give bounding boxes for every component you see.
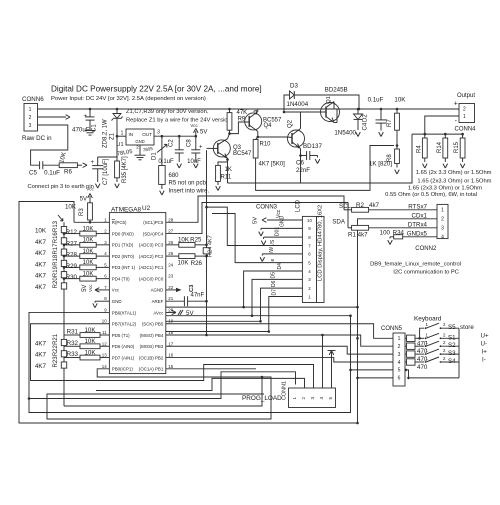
svg-text:0.1uF: 0.1uF xyxy=(158,159,174,165)
capacitor C2 xyxy=(178,135,181,138)
wire lcd D7 xyxy=(166,297,303,332)
wire SDA xyxy=(166,203,348,234)
svg-text:4K7: 4K7 xyxy=(35,273,47,280)
wire prog pin2 loop xyxy=(96,378,305,390)
svg-text:PROG_LOAD: PROG_LOAD xyxy=(242,395,282,402)
resistor R18 4K7 xyxy=(61,260,66,266)
svg-text:28: 28 xyxy=(168,217,173,222)
svg-text:C8: C8 xyxy=(187,139,193,147)
svg-text:15: 15 xyxy=(168,364,173,369)
resistor R5 680 xyxy=(159,166,166,185)
resistor R32 10K xyxy=(64,345,80,347)
svg-text:4K7: 4K7 xyxy=(35,261,47,268)
wire CONN1 pin4 xyxy=(322,335,324,388)
wire lcd RW pin6 xyxy=(262,253,302,255)
svg-text:R4: R4 xyxy=(416,145,422,153)
svg-text:store: store xyxy=(460,324,474,331)
svg-text:PD6 (AIN0): PD6 (AIN0) xyxy=(112,344,135,349)
svg-text:Vcc: Vcc xyxy=(112,288,120,293)
svg-text:R13: R13 xyxy=(53,220,59,232)
svg-text:OUT: OUT xyxy=(142,132,152,137)
svg-text:I2C communication to PC: I2C communication to PC xyxy=(393,269,459,275)
svg-text:1K [820]: 1K [820] xyxy=(369,161,392,168)
svg-text:R25: R25 xyxy=(190,237,202,244)
switch S4 xyxy=(425,361,427,363)
wire r9 to q4 base xyxy=(230,122,249,134)
svg-text:10K: 10K xyxy=(394,97,406,104)
svg-text:C7 [10uF]: C7 [10uF] xyxy=(103,158,109,185)
svg-text:4k7: 4k7 xyxy=(369,202,380,209)
svg-text:2: 2 xyxy=(301,397,306,400)
svg-text:1N5400: 1N5400 xyxy=(334,130,356,137)
svg-text:R23: R23 xyxy=(53,356,59,368)
svg-text:D5: D5 xyxy=(271,272,277,279)
svg-text:CDx1: CDx1 xyxy=(412,212,428,219)
wire conn6 pin3 route xyxy=(31,125,68,165)
svg-text:Vcc: Vcc xyxy=(86,187,94,192)
wire lcd RS pin7 xyxy=(207,207,303,245)
resistor R9 47K xyxy=(228,108,231,111)
svg-text:4K7: 4K7 xyxy=(35,239,47,246)
svg-text:U2: U2 xyxy=(142,205,151,212)
svg-text:S5: S5 xyxy=(448,324,456,331)
resistor R28 10K xyxy=(64,255,80,257)
svg-text:Replace Z1 by a wire for the 2: Replace Z1 by a wire for the 24V version… xyxy=(126,118,233,124)
svg-text:4K7: 4K7 xyxy=(35,250,47,257)
svg-text:27: 27 xyxy=(168,229,173,234)
svg-text:Q2: Q2 xyxy=(288,119,294,128)
svg-text:U1: U1 xyxy=(116,142,123,148)
transistor Q4 BC557 xyxy=(245,113,262,130)
svg-text:0.1uF: 0.1uF xyxy=(44,170,60,177)
diode D3 1N4004 xyxy=(283,111,286,114)
svg-text:3: 3 xyxy=(398,352,401,358)
svg-text:10K: 10K xyxy=(84,338,96,345)
svg-text:R7: R7 xyxy=(387,119,393,127)
resistor R26 10K xyxy=(166,255,179,257)
svg-text:Digital DC Powersupply 22V 2.5: Digital DC Powersupply 22V 2.5A [or 30V … xyxy=(51,85,262,94)
svg-text:R12: R12 xyxy=(66,229,78,236)
svg-text:4: 4 xyxy=(398,360,401,366)
svg-text:R26: R26 xyxy=(191,260,203,267)
switch S5 store xyxy=(420,328,424,338)
svg-text:2: 2 xyxy=(29,115,32,121)
svg-text:(ADC0) PC0: (ADC0) PC0 xyxy=(139,276,164,281)
wire pin1 row xyxy=(74,221,109,223)
svg-text:CONN2: CONN2 xyxy=(415,246,437,252)
wire pin10 loop xyxy=(31,324,314,388)
svg-text:S1: S1 xyxy=(448,334,456,341)
svg-text:1: 1 xyxy=(398,336,401,342)
svg-text:R35 [4K7]: R35 [4K7] xyxy=(122,156,128,183)
svg-text:5: 5 xyxy=(328,397,333,400)
wire conn1 pin1 loop xyxy=(29,372,296,399)
svg-text:3: 3 xyxy=(310,397,315,400)
wire MOSI row xyxy=(166,346,393,354)
svg-text:470: 470 xyxy=(417,364,428,371)
svg-text:1.65 (2x3.3 Ohm) or 1.5Ohm: 1.65 (2x3.3 Ohm) or 1.5Ohm xyxy=(408,186,482,192)
svg-text:1K: 1K xyxy=(225,167,232,173)
svg-text:12: 12 xyxy=(102,341,107,346)
svg-text:PD1 (TXD): PD1 (TXD) xyxy=(112,243,134,248)
svg-text:2: 2 xyxy=(463,107,466,113)
wire ladder bottom loop xyxy=(64,377,262,406)
svg-text:4K7: 4K7 xyxy=(35,284,47,291)
svg-text:4K7 [5K0]: 4K7 [5K0] xyxy=(259,162,286,168)
svg-text:D7: D7 xyxy=(272,289,278,296)
resistor R14 xyxy=(444,133,447,136)
svg-text:10K: 10K xyxy=(83,238,94,244)
svg-text:24: 24 xyxy=(168,262,173,267)
resistor R16 4K7 xyxy=(61,238,66,244)
resistor R34 100 xyxy=(403,236,437,238)
svg-text:1N4004: 1N4004 xyxy=(287,101,309,108)
svg-text:R31: R31 xyxy=(67,329,79,336)
wire conn5 pin6 left xyxy=(358,377,394,379)
wire q2 emitter down to sense xyxy=(300,156,302,184)
wire input rail xyxy=(38,108,460,110)
svg-text:U+: U+ xyxy=(481,332,489,339)
AGND pin22 xyxy=(166,289,176,291)
svg-text:Q1: Q1 xyxy=(326,96,332,104)
svg-text:16: 16 xyxy=(168,353,173,358)
svg-text:1: 1 xyxy=(292,397,297,400)
svg-text:(SCL)PC5: (SCL)PC5 xyxy=(143,220,164,225)
svg-text:BD137: BD137 xyxy=(303,143,322,150)
svg-text:1: 1 xyxy=(29,107,32,113)
resistor R12 10K xyxy=(64,233,80,235)
ground under C1 xyxy=(85,130,96,132)
svg-text:R6: R6 xyxy=(64,169,72,176)
wire z1 to U1 in xyxy=(117,135,126,137)
resistor R19 4K7 xyxy=(61,272,66,278)
capacitor C6 22nF xyxy=(301,155,307,157)
junction pin1 row xyxy=(356,337,359,340)
svg-text:22nF: 22nF xyxy=(296,167,310,174)
capacitor C1 470uF xyxy=(89,108,92,111)
svg-text:Z1: Z1 xyxy=(110,132,116,140)
capacitor C3 47nF xyxy=(166,300,185,302)
svg-text:CONN5: CONN5 xyxy=(381,326,403,332)
svg-text:0.1uF: 0.1uF xyxy=(368,97,384,104)
svg-text:GND: GND xyxy=(135,139,144,144)
wire line A voltage sense xyxy=(228,134,413,183)
svg-text:R24 4K7: R24 4K7 xyxy=(208,235,214,257)
wire CD xyxy=(358,219,438,423)
svg-text:D4: D4 xyxy=(277,263,283,270)
svg-text:6: 6 xyxy=(398,376,401,382)
svg-text:U-: U- xyxy=(481,341,488,348)
svg-text:R14: R14 xyxy=(437,141,443,153)
svg-text:R17: R17 xyxy=(53,243,59,255)
capacitor C5 xyxy=(39,161,41,169)
svg-text:25: 25 xyxy=(168,251,173,256)
svg-text:RTSx7: RTSx7 xyxy=(408,203,427,210)
svg-text:5V: 5V xyxy=(80,196,87,202)
svg-text:R28: R28 xyxy=(66,252,78,259)
svg-text:D6: D6 xyxy=(271,280,277,287)
wire D5 to bus right xyxy=(252,315,351,317)
zener Z1 xyxy=(116,108,119,111)
svg-text:R19: R19 xyxy=(53,265,59,277)
svg-text:GNDx5: GNDx5 xyxy=(407,230,428,237)
wire feedback down to MISO row xyxy=(206,256,208,335)
svg-text:R5 not on pcb: R5 not on pcb xyxy=(169,181,207,187)
svg-text:(MISO) PB4: (MISO) PB4 xyxy=(140,333,164,338)
svg-text:BD245B: BD245B xyxy=(325,87,348,94)
keyboard resistors 470 xyxy=(405,337,407,339)
svg-text:CONN3: CONN3 xyxy=(256,205,278,211)
svg-text:26: 26 xyxy=(168,240,173,245)
svg-text:R16: R16 xyxy=(53,232,59,244)
svg-text:R22: R22 xyxy=(53,345,59,357)
wire OC1B row xyxy=(166,358,393,362)
svg-text:Connect pin 3 to earth pin: Connect pin 3 to earth pin xyxy=(28,184,94,190)
svg-text:10K: 10K xyxy=(83,260,94,266)
svg-text:3: 3 xyxy=(441,226,444,232)
svg-text:(OC1B) PB2: (OC1B) PB2 xyxy=(139,355,164,360)
resistor R4 xyxy=(424,133,427,136)
svg-text:14: 14 xyxy=(102,364,107,369)
resistor R11 1K xyxy=(218,160,228,166)
wire lcd pin8 xyxy=(264,236,303,238)
transistor Q3 BC547 xyxy=(213,140,230,157)
resistor R10 xyxy=(256,137,258,140)
resistor R6 xyxy=(59,163,77,168)
svg-text:10uF: 10uF xyxy=(187,159,201,165)
svg-text:/W: /W xyxy=(269,247,275,253)
switch S5 xyxy=(425,327,427,329)
svg-text:1.65 (2x 3.3 Ohm) or 1.5Ohm: 1.65 (2x 3.3 Ohm) or 1.5Ohm xyxy=(416,170,492,176)
svg-text:3: 3 xyxy=(29,123,32,129)
svg-text:R3: R3 xyxy=(79,208,85,216)
svg-text:Insert into wire.: Insert into wire. xyxy=(169,189,210,195)
svg-text:4K7: 4K7 xyxy=(35,363,47,370)
svg-text:13: 13 xyxy=(102,353,107,358)
svg-text:20: 20 xyxy=(168,307,173,312)
wire OC1A row xyxy=(166,368,256,370)
wire lcd D5 xyxy=(166,279,303,315)
svg-text:R21: R21 xyxy=(53,333,59,345)
svg-text:Raw DC in: Raw DC in xyxy=(22,135,52,142)
svg-text:LCD Display, HD44780, 16X2: LCD Display, HD44780, 16X2 xyxy=(318,205,324,281)
svg-text:R2: R2 xyxy=(356,202,364,209)
capacitor C4 0.1uF xyxy=(380,108,383,111)
svg-text:R18: R18 xyxy=(53,254,59,266)
svg-text:AVcc: AVcc xyxy=(153,310,164,315)
svg-text:+: + xyxy=(90,160,94,166)
wire SCL xyxy=(166,196,344,222)
wire reset loop xyxy=(19,202,358,424)
wire q4 collector to q2 base xyxy=(258,136,288,138)
ladder vertical rail xyxy=(63,222,65,406)
svg-text:CONN6: CONN6 xyxy=(22,96,44,103)
svg-text:1: 1 xyxy=(463,114,466,120)
wire conn6 pin2 stub xyxy=(38,116,67,118)
resistor R35 4K7 xyxy=(116,134,118,161)
resistor R24 4K7 xyxy=(206,245,208,248)
resistor R1 4k7 xyxy=(348,227,352,229)
svg-text:(MOSI) PB3: (MOSI) PB3 xyxy=(140,344,164,349)
svg-text:GND: GND xyxy=(112,299,122,304)
svg-text:Output: Output xyxy=(457,93,475,99)
svg-text:I+: I+ xyxy=(482,349,488,356)
svg-text:CONN1: CONN1 xyxy=(282,381,288,400)
resistor R22 4K7 xyxy=(61,351,66,357)
svg-text:(ADC1) PC1: (ADC1) PC1 xyxy=(139,265,164,270)
svg-text:1: 1 xyxy=(121,130,124,136)
svg-text:R29: R29 xyxy=(66,263,78,270)
svg-text:(OC1A) PB1: (OC1A) PB1 xyxy=(139,367,164,372)
svg-text:LCD: LCD xyxy=(296,199,302,212)
wire lcd vcc xyxy=(267,219,302,221)
svg-text:PD7 (AIN1): PD7 (AIN1) xyxy=(112,355,135,360)
capacitor C8 10uF xyxy=(195,135,198,138)
svg-text:10K: 10K xyxy=(83,226,94,232)
svg-text:5: 5 xyxy=(398,368,401,374)
svg-text:R33: R33 xyxy=(67,351,79,358)
svg-text:SCL: SCL xyxy=(339,203,352,210)
svg-text:DB9_female_Linux_remote_contro: DB9_female_Linux_remote_control xyxy=(370,262,461,268)
svg-text:1.65 (2x3.3 Ohm) or 1.5Ohm: 1.65 (2x3.3 Ohm) or 1.5Ohm xyxy=(417,179,491,185)
svg-text:11: 11 xyxy=(102,330,107,335)
svg-text:PD3 (INT 1): PD3 (INT 1) xyxy=(112,265,136,270)
svg-text:Vcc: Vcc xyxy=(88,284,93,292)
svg-text:C2: C2 xyxy=(169,139,175,147)
svg-text:I-: I- xyxy=(482,356,486,363)
svg-text:(SCK) PB5: (SCK) PB5 xyxy=(142,322,164,327)
svg-text:4: 4 xyxy=(441,235,444,241)
svg-text:10K: 10K xyxy=(83,271,94,277)
svg-text:PD0 (RXD): PD0 (RXD) xyxy=(112,231,134,236)
svg-text:R34: R34 xyxy=(393,229,405,236)
svg-text:100: 100 xyxy=(380,229,391,236)
wire bus vertical x350.5 xyxy=(350,316,352,370)
svg-text:10K: 10K xyxy=(83,249,94,255)
svg-text:47K: 47K xyxy=(237,110,248,116)
svg-text:10K: 10K xyxy=(84,327,96,334)
svg-text:4K7: 4K7 xyxy=(35,340,47,347)
diode D2 1N5400 xyxy=(357,108,360,111)
resistor R8 xyxy=(396,144,399,147)
svg-text:17: 17 xyxy=(168,341,173,346)
svg-text:+: + xyxy=(199,145,203,151)
wire MISO row xyxy=(166,335,393,346)
svg-text:5V: 5V xyxy=(253,217,259,224)
svg-text:BC547: BC547 xyxy=(233,151,252,157)
svg-text:R(PC6): R(PC6) xyxy=(112,220,127,225)
svg-text:3: 3 xyxy=(157,129,160,135)
resistor R33 10K xyxy=(64,357,80,359)
svg-text:D1: D1 xyxy=(152,152,158,160)
svg-text:R11: R11 xyxy=(221,175,232,181)
svg-text:ZD8.2, 1W: ZD8.2, 1W xyxy=(103,119,109,148)
ground CONN1 pin5 xyxy=(331,352,333,388)
wire pin9 keyboard loop xyxy=(29,312,393,412)
svg-text:(ADC2) PC2: (ADC2) PC2 xyxy=(139,254,164,259)
svg-text:(ADC3) PC3: (ADC3) PC3 xyxy=(139,243,164,248)
wire conn4 pin1 to sense resistors xyxy=(425,116,459,134)
svg-text:10K: 10K xyxy=(65,204,77,211)
svg-text:0.55 Ohm (or 0.5 Ohm), 6W, in: 0.55 Ohm (or 0.5 Ohm), 6W, in total xyxy=(385,192,477,198)
svg-text:/S: /S xyxy=(270,239,276,244)
svg-text:23: 23 xyxy=(168,274,173,279)
svg-text:PD2 (INT0): PD2 (INT0) xyxy=(112,254,135,259)
svg-text:R10: R10 xyxy=(260,141,272,147)
svg-text:(SDA)PC4: (SDA)PC4 xyxy=(143,231,164,236)
wire q3 base feedback xyxy=(206,150,208,245)
resistor R21 4K7 xyxy=(61,339,66,345)
Vcc pin7 arrow xyxy=(95,289,109,291)
svg-text:10K: 10K xyxy=(178,237,190,244)
wire c5-r6 xyxy=(43,164,59,166)
svg-text:10K: 10K xyxy=(177,259,189,266)
wire keyboard common rail xyxy=(458,328,460,378)
wire D4 to bus right xyxy=(244,306,358,308)
svg-text:10: 10 xyxy=(102,319,107,324)
AVcc 5V xyxy=(166,311,176,313)
svg-text:D3: D3 xyxy=(290,83,298,90)
resistor R17 4K7 xyxy=(61,249,66,255)
svg-text:10K: 10K xyxy=(35,228,47,235)
svg-text:+: + xyxy=(83,114,87,120)
GND pin8 xyxy=(95,300,109,302)
svg-text:Z1,C7,R39 only for 30V version: Z1,C7,R39 only for 30V version. xyxy=(126,109,209,115)
resistor R29 10K xyxy=(64,266,80,268)
wire r6-arrow xyxy=(77,164,82,166)
wire r10 bottom sense line xyxy=(256,146,394,191)
connector CONN2 xyxy=(437,204,448,238)
wire pin14 loop xyxy=(47,369,271,419)
svg-text:1: 1 xyxy=(441,208,444,214)
svg-text:Q4: Q4 xyxy=(264,123,273,129)
svg-text:R1 4k7: R1 4k7 xyxy=(348,232,368,239)
resistor R30 10K xyxy=(64,278,80,280)
svg-text:R15: R15 xyxy=(454,141,460,153)
svg-text:22: 22 xyxy=(168,285,173,290)
svg-text:PB6(XTAL1): PB6(XTAL1) xyxy=(112,310,137,315)
svg-text:PB7(XTAL2): PB7(XTAL2) xyxy=(112,322,137,327)
wire lcd gnd pin9 xyxy=(261,227,302,229)
svg-text:AREF: AREF xyxy=(152,299,164,304)
svg-text:S2: S2 xyxy=(448,342,456,349)
switch S1 xyxy=(425,337,427,339)
resistor R3 10K xyxy=(89,220,91,222)
svg-text:DTRx4: DTRx4 xyxy=(408,221,428,228)
svg-text:AGND: AGND xyxy=(151,288,164,293)
svg-text:2: 2 xyxy=(398,344,401,350)
svg-text:5V: 5V xyxy=(200,130,207,136)
wire SCK to keyboard xyxy=(166,324,393,339)
svg-text:PD4 (T0): PD4 (T0) xyxy=(112,276,130,281)
resistor R13 10K xyxy=(61,227,66,233)
svg-text:18: 18 xyxy=(168,330,173,335)
svg-text:C4: C4 xyxy=(363,122,369,130)
svg-text:4: 4 xyxy=(319,397,324,400)
svg-text:10K: 10K xyxy=(84,349,96,356)
resistor R2 4k7 xyxy=(344,209,352,211)
svg-text:PD5 (T1): PD5 (T1) xyxy=(112,333,130,338)
svg-text:4K7: 4K7 xyxy=(35,352,47,359)
resistor R31 10K xyxy=(64,334,80,336)
resistor R7 10K xyxy=(396,108,399,111)
regulator U1 78L05 xyxy=(126,129,154,145)
svg-text:D2: D2 xyxy=(363,114,369,122)
capacitor C7 10uF xyxy=(97,157,99,165)
svg-text:C5: C5 xyxy=(29,170,37,177)
svg-text:R27: R27 xyxy=(66,240,78,247)
resistor R20 4K7 xyxy=(61,283,66,289)
